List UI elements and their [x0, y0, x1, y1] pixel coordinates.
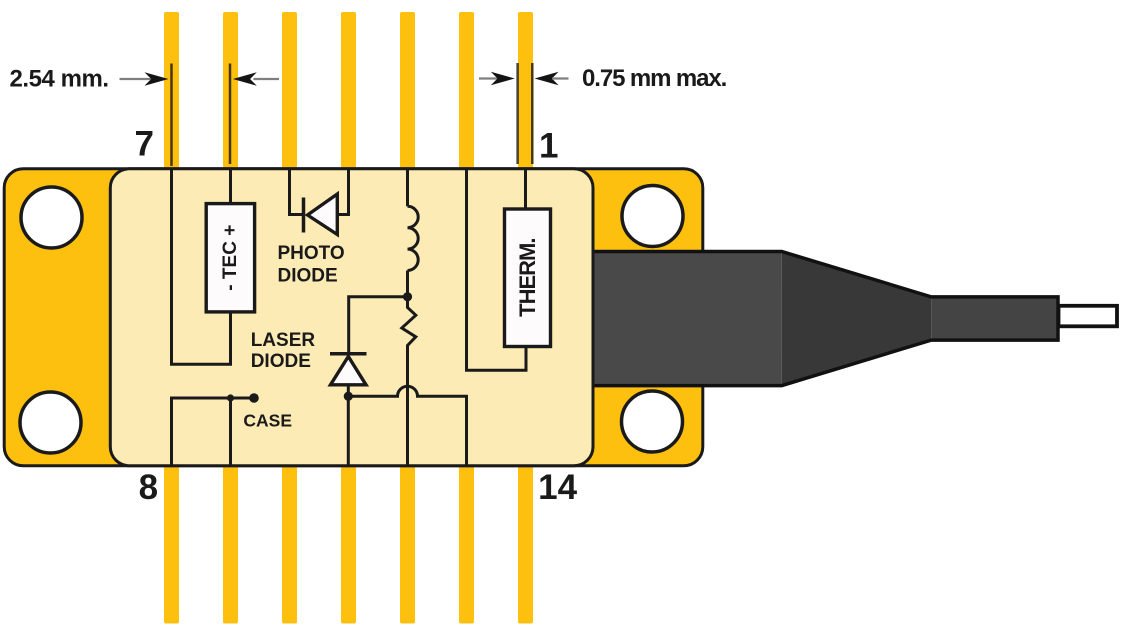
package inner cavity — [110, 169, 593, 466]
pin 1 lead (top) — [518, 12, 533, 169]
mounting hole top-left — [21, 187, 82, 248]
inductor L1 coil — [408, 206, 419, 270]
fiber boot (strain relief) body — [592, 252, 782, 386]
photodiode D1 cathode bar — [302, 198, 306, 233]
fiber boot taper — [782, 252, 932, 386]
pin 14 lead (bottom) — [518, 464, 533, 624]
case contact dot — [249, 393, 259, 403]
mounting hole bottom-left — [20, 392, 81, 453]
resistor R1 zigzag — [402, 297, 416, 467]
butterfly package body — [4, 169, 703, 466]
wire pin6 to TEC plus terminal — [229, 168, 232, 204]
wire thermistor bottom to pin2 — [467, 168, 527, 370]
pin 9 lead (bottom) — [223, 464, 238, 624]
pin 4 lead (top) — [341, 12, 356, 169]
dimension extension line pin6 center — [229, 64, 232, 165]
wire pin5 to photodiode cathode — [290, 168, 304, 215]
svg-text:LASER: LASER — [251, 330, 316, 351]
wire photodiode anode to pin4 — [337, 168, 348, 215]
dimension arrow right-pointing at pin1 left — [479, 77, 498, 79]
pin 13 lead (bottom) — [459, 464, 474, 624]
wire inductor to node A — [406, 271, 409, 297]
pin 3 lead (top) — [400, 12, 415, 169]
pin 6 lead (top) — [223, 12, 238, 169]
fiber ferrule — [1059, 306, 1118, 327]
svg-text:14: 14 — [538, 468, 577, 507]
laser diode D2 cathode bar — [330, 352, 367, 356]
pin 7 lead (top) — [164, 12, 179, 169]
svg-text:7: 7 — [134, 125, 153, 164]
mounting hole top-right — [622, 186, 683, 247]
case contact stub — [231, 397, 255, 400]
laser diode D2 anode triangle — [331, 357, 367, 385]
svg-text:1: 1 — [539, 127, 558, 166]
svg-text:2.54 mm.: 2.54 mm. — [10, 65, 109, 92]
wire node B to pin13 with hop over resistor wire — [348, 386, 466, 467]
mounting hole bottom-right — [622, 391, 683, 452]
wire pin1 to thermistor top — [524, 168, 527, 210]
pin 12 lead (bottom) — [400, 464, 415, 624]
svg-text:8: 8 — [139, 468, 158, 507]
svg-text:CASE: CASE — [243, 411, 292, 431]
svg-text:0.75 mm max.: 0.75 mm max. — [582, 65, 727, 92]
TEC cooler box — [206, 204, 254, 312]
dimension extension line pin1 right edge — [531, 63, 534, 164]
wire pin8 to case node — [172, 398, 231, 467]
thermistor box — [505, 209, 551, 347]
pin 2 lead (top) — [459, 12, 474, 169]
photodiode D1 anode triangle — [308, 194, 338, 235]
svg-text:DIODE: DIODE — [278, 266, 338, 287]
dimension arrow left-pointing at pin1 right — [535, 72, 559, 86]
pin 5 lead (top) — [282, 12, 297, 169]
dimension arrow right-pointing at pin7 — [120, 78, 152, 80]
fiber boot thin sleeve — [931, 297, 1058, 340]
pin 8 lead (bottom) — [164, 464, 179, 624]
dimension arrow left-pointing at pin6 — [233, 72, 257, 86]
svg-text:DIODE: DIODE — [251, 351, 311, 372]
svg-text:- TEC +: - TEC + — [220, 225, 241, 291]
pin 11 lead (bottom) — [341, 464, 356, 624]
dimension extension line pin7 center — [170, 64, 173, 167]
wire node A to laser diode cathode — [349, 297, 408, 352]
pin 10 lead (bottom) — [282, 464, 297, 624]
svg-text:THERM.: THERM. — [515, 239, 540, 317]
svg-text:PHOTO: PHOTO — [278, 243, 345, 264]
node B junction dot — [344, 392, 353, 401]
wire laser diode anode to pin10 — [347, 385, 350, 467]
fiber boot outline — [592, 252, 1058, 386]
wire pin3 to inductor — [406, 168, 409, 206]
wire pin7 to TEC minus terminal — [172, 168, 231, 364]
dimension extension line pin1 left edge — [516, 63, 519, 164]
case junction dot — [227, 394, 234, 401]
node A junction dot — [403, 292, 412, 301]
